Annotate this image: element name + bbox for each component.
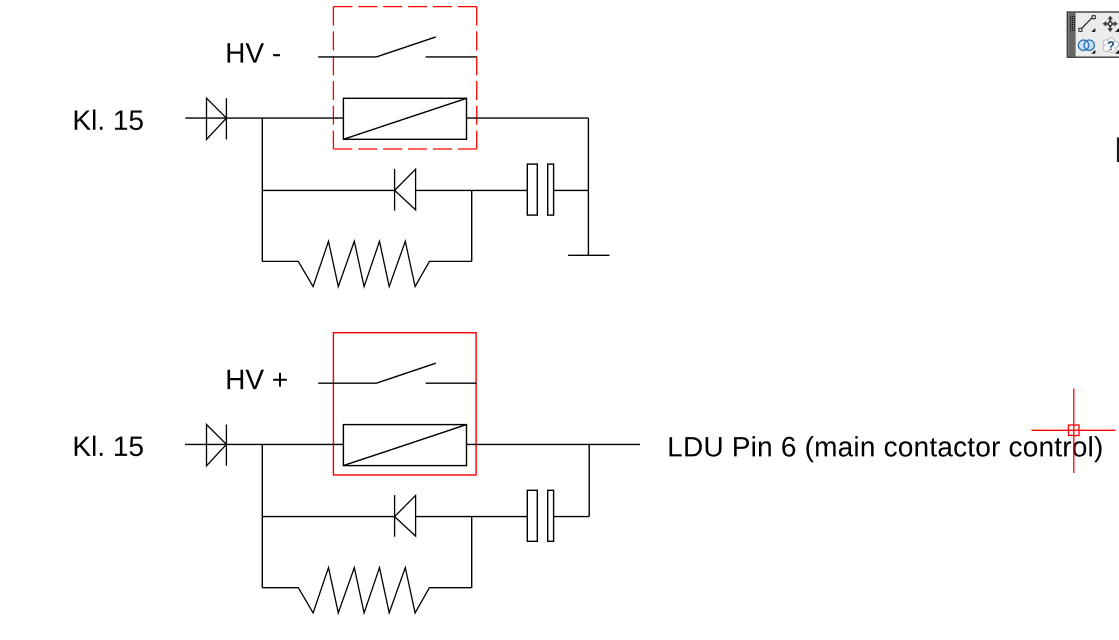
wire C2 to right vertical [554,516,590,518]
diode D4 (freewheel) [395,495,416,537]
wire mid row left (top) [262,189,394,191]
wire vertical right to ground [587,118,589,255]
wire relay K1 output [467,117,589,119]
label LDU Pin 6 (main contactor control) [670,436,1102,462]
wire C1 to right vertical [554,189,589,191]
label Kl. 15 (bottom) [75,436,143,457]
crosshair cursor (red) [1032,389,1116,474]
wire Kl.15 to relay K2 [185,443,343,445]
toolbar icon: line tool [1079,16,1095,32]
relay coil K1 [343,98,466,139]
capacitor C2 [527,490,553,541]
diode D1 [207,98,227,139]
switch S1 (HV - contactor contact) [318,37,476,57]
label Kl. 15 (top) [75,110,143,131]
wire D2 to C1 [416,189,528,191]
ground [568,254,609,256]
relay coil K2 [343,425,466,466]
wire D4 to C2 [416,516,528,518]
diode D2 (freewheel) [395,169,416,211]
capacitor C1 [527,164,553,215]
dashed selection box (red) around relay K1 [333,7,476,149]
wire vertical left branch (bottom) [261,444,263,587]
wire relay K2 to LDU pin 6 [467,443,641,445]
toolbar icon: move/pan tool [1103,16,1119,32]
toolbar icon: region/circles tool [1078,40,1095,54]
selection box (red solid) around relay K2 [333,333,476,475]
label HV + [228,370,287,389]
diode D3 [207,425,227,466]
resistor R1 with bottom wire [262,241,471,286]
resistor R2 with bottom wire [262,568,471,613]
toolbar icon: help tool [1103,38,1119,54]
wire vertical mid branch (top) [471,190,473,261]
toolbar panel (top right) [1067,12,1119,57]
partial UI element at right edge [1117,137,1119,162]
label HV - [228,43,281,62]
wire vertical mid branch (bottom) [471,517,473,588]
wire mid row left (bottom) [262,516,394,518]
wire vertical left branch (top) [261,118,263,261]
switch S2 (HV + contactor contact) [318,363,476,383]
toolbar grip strip [1068,13,1075,57]
wire vertical right branch (bottom) [588,444,590,516]
wire Kl.15 to relay K1 [185,117,343,119]
